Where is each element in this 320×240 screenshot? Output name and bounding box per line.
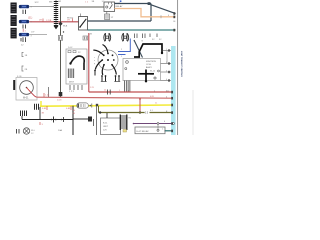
- svg-text:1R: 1R: [39, 20, 42, 22]
- inline connector on red line: [108, 90, 111, 95]
- svg-text:IG-12: IG-12: [150, 71, 156, 73]
- vertical into box: [106, 113, 108, 118]
- svg-text:RELAY: RELAY: [116, 5, 124, 8]
- splice ticks row 2: [23, 25, 26, 29]
- svg-text:10A: 10A: [58, 129, 62, 132]
- slate vertical node link: [150, 4, 152, 22]
- pins on ECU band upper: [168, 49, 170, 81]
- svg-text:ASSY: ASSY: [146, 66, 152, 69]
- olive wire: [99, 106, 172, 115]
- ballast resistor stack: [120, 115, 132, 131]
- splice ticks row 1: [23, 10, 26, 14]
- spark plug SP1: [101, 75, 107, 81]
- fusible link pill on yellow wire: [77, 103, 92, 108]
- teal wire switch to ECU: [88, 29, 176, 31]
- svg-text:E-11: E-11: [103, 123, 108, 125]
- micro labels scattered: [31, 7, 177, 93]
- red wire switch branch down: [83, 33, 89, 92]
- svg-text:UNIT: UNIT: [103, 126, 109, 128]
- red feed line 2: [37, 97, 172, 98]
- blue stub: [118, 54, 126, 56]
- red feed line 1: [89, 91, 172, 93]
- svg-text:WG12: WG12: [67, 18, 74, 20]
- ECU cyan band: [171, 46, 176, 135]
- slate wire relay output: [115, 3, 152, 5]
- distributor box: [66, 49, 87, 84]
- wire tag ticks on red wire: [42, 19, 44, 22]
- pin at teal end: [173, 29, 175, 32]
- gauge unit box: [13, 76, 37, 100]
- svg-text:COIL: COIL: [146, 64, 152, 66]
- spark plug lead 3: [102, 65, 104, 75]
- teal bottom wire: [165, 130, 172, 132]
- faint inner line bottom right: [192, 90, 194, 135]
- svg-text:E-07 RELAY: E-07 RELAY: [137, 130, 150, 133]
- red micro labels under pill: [73, 110, 76, 115]
- ignition coil box: [123, 59, 161, 81]
- short branch wire: [48, 87, 50, 97]
- yellow wire: [40, 101, 42, 106]
- coil tower terminal (thick cross): [138, 70, 154, 83]
- main relay U1: [104, 2, 115, 12]
- inline connector D-2: [22, 66, 28, 71]
- spark plug lead 2: [103, 45, 109, 54]
- inline connector D-1: [22, 53, 28, 58]
- yellow tap mark: [123, 130, 127, 133]
- wire to main relay (battery feed): [61, 7, 105, 97]
- gray wires coil to ECU: [163, 50, 172, 52]
- connector C1 (pill): [19, 5, 29, 8]
- svg-text:1 2 3: 1 2 3: [69, 91, 75, 93]
- distributor bottom pins: [70, 85, 82, 90]
- gauge dial: [20, 81, 34, 100]
- spark plug lead 4: [112, 65, 116, 75]
- ignition switch SW1: [67, 14, 88, 31]
- twisted pair symbols under teal wire: [104, 33, 129, 42]
- svg-text:DIST: DIST: [69, 82, 75, 84]
- connector marker low: [59, 92, 63, 96]
- pink marker above C3: [23, 29, 26, 33]
- red wire C2 to ignition switch: [29, 21, 78, 23]
- red drop to olive junction: [138, 98, 141, 114]
- svg-text:(31): (31): [28, 17, 32, 20]
- purple wire: [133, 123, 175, 130]
- rotor arm (thick arc): [69, 56, 84, 70]
- label inside distributor box left: [67, 61, 69, 69]
- pins on ECU band lower: [171, 91, 173, 132]
- fuse block J/B-3: [11, 28, 17, 39]
- red wire from gauge to main red line: [31, 92, 37, 97]
- splice ticks below C3: [21, 37, 26, 42]
- HT lead (thick): [134, 44, 162, 57]
- component box B2: [135, 127, 165, 134]
- fuse block J/B-2: [11, 15, 17, 26]
- blue wire to distributor: [118, 39, 130, 52]
- pin micro labels: [164, 91, 168, 133]
- junction marks at yellow/olive: [96, 104, 98, 106]
- svg-text:12V: 12V: [103, 130, 107, 132]
- fuse block J/B-1: [11, 3, 17, 14]
- spark plug SP2: [114, 75, 120, 81]
- ground bus (hatched strap): [54, 0, 59, 29]
- svg-text:ENGINE CONTROL UNIT: ENGINE CONTROL UNIT: [182, 50, 184, 76]
- splice ticks at yellow wire start: [35, 104, 39, 110]
- svg-text:IGNITION: IGNITION: [146, 61, 156, 63]
- connector C3 (pill): [19, 33, 29, 36]
- black wire bottom left: [22, 116, 73, 123]
- slate diagonal into coil box: [134, 40, 143, 58]
- indicator lamp L-1: [17, 128, 36, 135]
- spark plug lead 5: [95, 60, 102, 70]
- connector C2 (pill): [19, 20, 29, 23]
- svg-text:1.25B: 1.25B: [46, 20, 52, 22]
- spark plug SP3: [94, 70, 96, 76]
- olive junction marker left: [99, 111, 102, 114]
- black vertical trunk: [72, 106, 74, 135]
- ECU sidebar line: [177, 0, 179, 135]
- slate wire switch to node: [88, 20, 152, 22]
- pin ticks under teal wire: [135, 34, 158, 39]
- resistor block: [73, 117, 94, 127]
- spark plug lead 1: [93, 50, 104, 55]
- splice ticks at black wire start: [21, 111, 27, 117]
- wire C3 stub: [29, 34, 47, 36]
- extra wire-code micro labels: [46, 20, 158, 105]
- inline connector on vertical wire: [58, 31, 64, 40]
- junction marker on vertical wire: [58, 22, 62, 26]
- primary winding hatch below coil box: [125, 81, 130, 92]
- coil terminals: [154, 77, 156, 79]
- orange wire relay to ECU: [115, 9, 176, 17]
- pickup coil winding: [68, 69, 73, 79]
- black drop from yellow junction: [39, 107, 41, 120]
- wire C1 to bus: [29, 6, 54, 8]
- junction connector square: [148, 2, 151, 5]
- component box B1: [101, 118, 121, 135]
- svg-text:M-01: M-01: [23, 97, 29, 100]
- svg-text:c: c: [94, 57, 95, 59]
- slate diagonal to ECU: [150, 5, 175, 14]
- relay bottom connector: [105, 12, 114, 20]
- distributor cap circle: [98, 50, 118, 70]
- svg-text:1R: 1R: [67, 20, 70, 22]
- relay label: [116, 0, 124, 7]
- thin vertical at 97.5: [96, 106, 98, 135]
- svg-text:W-B: W-B: [63, 26, 68, 28]
